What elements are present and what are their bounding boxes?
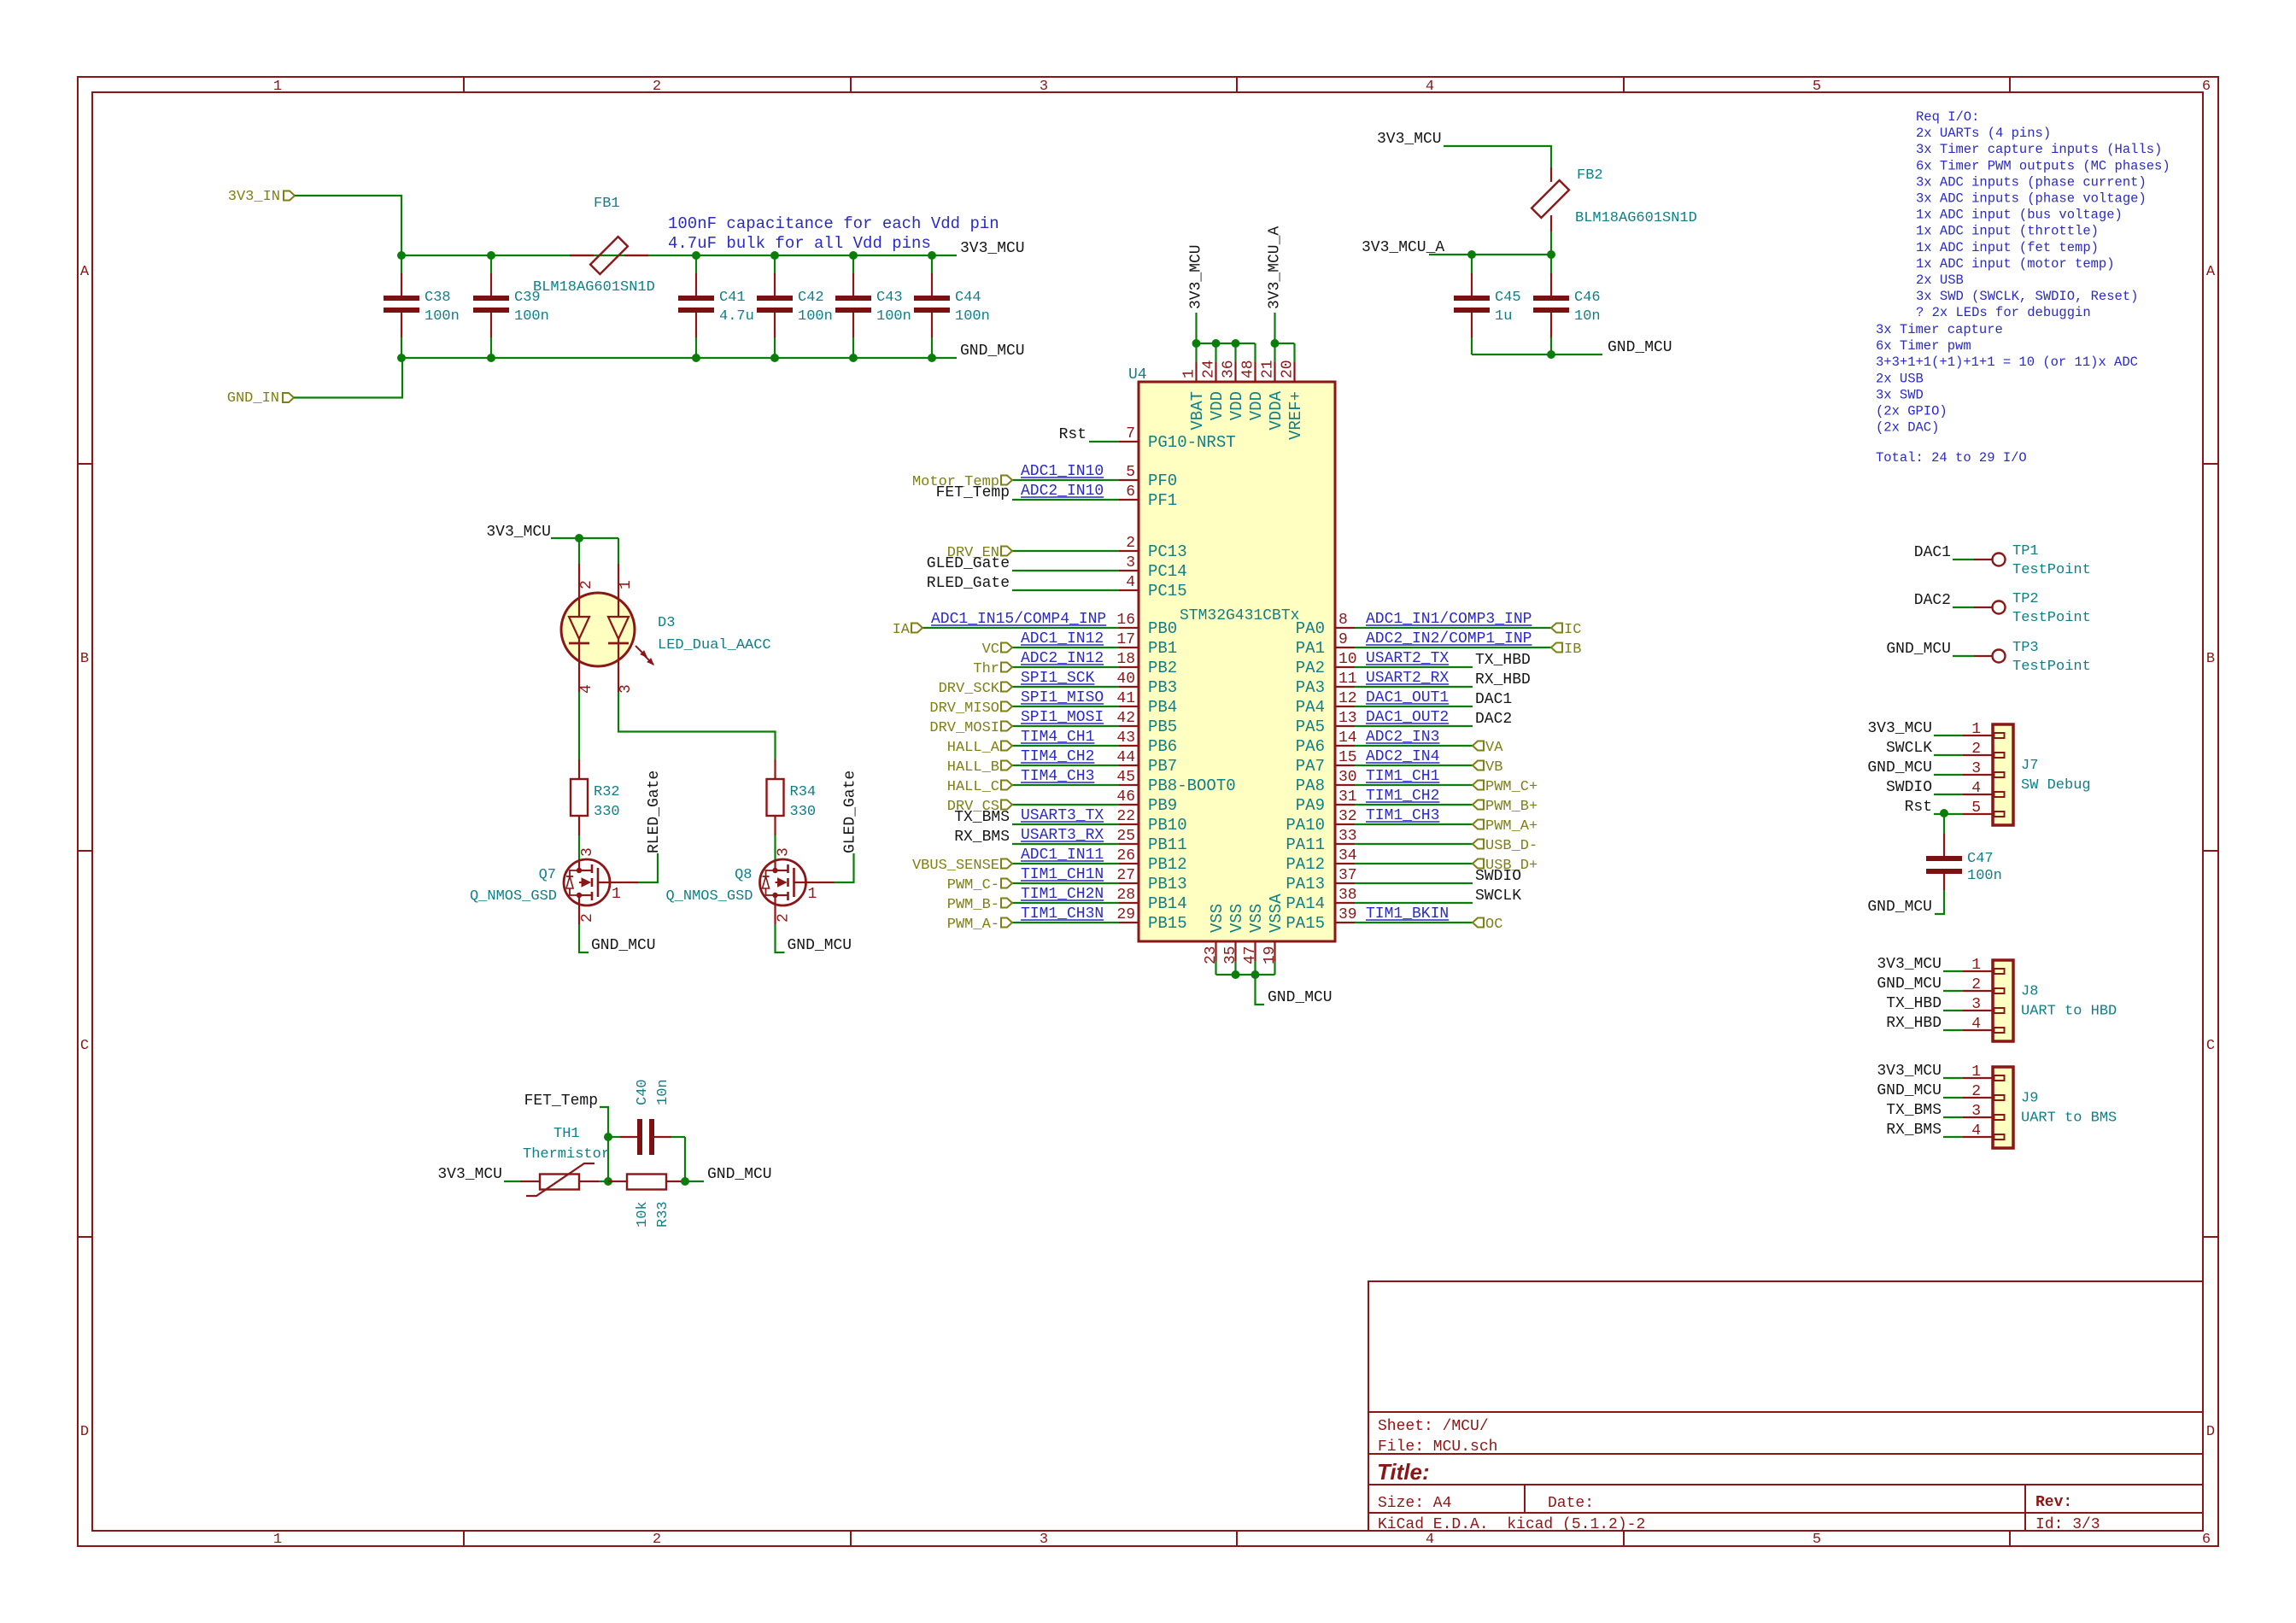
thermistor TH1 bbox=[520, 1126, 610, 1196]
svg-text:3x ADC inputs (phase current): 3x ADC inputs (phase current) bbox=[1916, 174, 2147, 190]
net label SPI1_MOSI bbox=[1021, 709, 1104, 726]
svg-text:RX_BMS: RX_BMS bbox=[954, 829, 1010, 846]
svg-text:PC15: PC15 bbox=[1148, 582, 1187, 601]
svg-text:HALL_B: HALL_B bbox=[947, 759, 999, 776]
svg-text:6x Timer pwm: 6x Timer pwm bbox=[1876, 338, 1971, 354]
net label ADC1_IN1/COMP3_INP bbox=[1366, 611, 1532, 628]
svg-text:6: 6 bbox=[2202, 79, 2211, 95]
svg-text:41: 41 bbox=[1116, 690, 1135, 707]
resistor R32 330 bbox=[571, 759, 620, 835]
resistor R34 330 bbox=[767, 759, 817, 835]
test point TP3 bbox=[1974, 640, 2091, 675]
wire RX_HBD to J8 pin 4 bbox=[1943, 1029, 1963, 1031]
svg-text:DRV_MOSI: DRV_MOSI bbox=[929, 720, 999, 736]
wire TH1 to R33 bbox=[599, 1181, 608, 1182]
svg-text:RLED_Gate: RLED_Gate bbox=[646, 770, 663, 853]
svg-text:BLM18AG601SN1D: BLM18AG601SN1D bbox=[1575, 210, 1697, 226]
capacitor C47 100n bbox=[1926, 813, 2002, 890]
transistor Q8 Q_NMOS_GSD bbox=[760, 859, 835, 924]
wire to GND_MCU label bbox=[685, 1181, 704, 1182]
pin 3 of J9 bbox=[1963, 1103, 2005, 1120]
svg-text:PA3: PA3 bbox=[1296, 678, 1325, 697]
wire 3V3_MCU drop to VDD group bbox=[1195, 313, 1197, 343]
wire GND_IN to rail bbox=[294, 358, 402, 398]
pin 1 of J8 bbox=[1963, 957, 2005, 974]
svg-text:PA10: PA10 bbox=[1286, 816, 1325, 835]
capacitor C39 bbox=[473, 255, 549, 358]
svg-text:2x USB: 2x USB bbox=[1916, 272, 1964, 288]
svg-text:GND_MCU: GND_MCU bbox=[1608, 339, 1672, 356]
svg-text:3: 3 bbox=[1126, 554, 1135, 571]
svg-text:GND_IN: GND_IN bbox=[227, 390, 279, 407]
wire to pin 28 bbox=[1012, 902, 1119, 904]
svg-text:PA14: PA14 bbox=[1286, 894, 1325, 913]
svg-text:Id: 3/3: Id: 3/3 bbox=[2035, 1516, 2100, 1533]
svg-text:3: 3 bbox=[1971, 996, 1981, 1013]
hierarchical label HALL_B bbox=[947, 759, 1012, 776]
svg-text:3: 3 bbox=[1971, 760, 1981, 777]
svg-text:36: 36 bbox=[1221, 360, 1238, 378]
pin 41 PB4 of U4 bbox=[1116, 690, 1177, 717]
svg-text:C47: C47 bbox=[1967, 851, 1994, 867]
pin 32 PA10 of U4 bbox=[1286, 808, 1356, 835]
svg-text:PA7: PA7 bbox=[1296, 757, 1325, 776]
svg-text:3x Timer capture: 3x Timer capture bbox=[1876, 322, 2003, 337]
svg-text:100nF capacitance for each Vdd: 100nF capacitance for each Vdd pin bbox=[668, 214, 999, 233]
svg-text:J7: J7 bbox=[2021, 758, 2038, 774]
svg-text:Req I/O:: Req I/O: bbox=[1916, 109, 1979, 125]
hierarchical label PWM_C+ bbox=[1473, 779, 1537, 795]
wire 3V3_MCU to LED pins bbox=[551, 538, 618, 564]
hierarchical label VBUS_SENSE bbox=[912, 858, 1012, 874]
frame row letters left bbox=[80, 264, 90, 1440]
wire from pin 34 bbox=[1355, 863, 1473, 864]
svg-text:GND_MCU: GND_MCU bbox=[1886, 641, 1951, 658]
svg-text:PWM_C+: PWM_C+ bbox=[1485, 779, 1537, 795]
svg-text:3: 3 bbox=[1040, 1532, 1048, 1548]
wire VDD group bbox=[1197, 343, 1256, 362]
junction C45 top bbox=[1467, 250, 1476, 259]
capacitor C44 bbox=[914, 255, 990, 358]
svg-text:(2x DAC): (2x DAC) bbox=[1876, 420, 1939, 436]
wire Q8 gate to GLED_Gate bbox=[835, 853, 854, 882]
hierarchical label USB_D- bbox=[1473, 838, 1537, 854]
pin 29 PB15 of U4 bbox=[1116, 906, 1186, 933]
wire VSS group bbox=[1216, 961, 1275, 975]
svg-text:SW Debug: SW Debug bbox=[2021, 777, 2091, 794]
svg-text:PC13: PC13 bbox=[1148, 542, 1187, 561]
pin 21 VDDA of U4 bbox=[1260, 360, 1286, 430]
junction TH1 R33 node bbox=[604, 1177, 612, 1186]
pin 33 PA11 of U4 bbox=[1286, 828, 1356, 854]
svg-text:PWM_A+: PWM_A+ bbox=[1485, 818, 1537, 835]
svg-text:3x SWD: 3x SWD bbox=[1876, 387, 1924, 402]
svg-text:PB7: PB7 bbox=[1148, 757, 1177, 776]
svg-text:PA9: PA9 bbox=[1296, 796, 1325, 815]
net label TIM4_CH1 bbox=[1021, 729, 1094, 746]
svg-text:Q_NMOS_GSD: Q_NMOS_GSD bbox=[665, 888, 753, 905]
svg-text:GND_MCU: GND_MCU bbox=[960, 343, 1025, 360]
svg-text:C: C bbox=[80, 1038, 89, 1054]
svg-text:1: 1 bbox=[1971, 957, 1981, 974]
svg-text:1: 1 bbox=[808, 886, 817, 903]
svg-text:PB3: PB3 bbox=[1148, 678, 1177, 697]
svg-text:DAC1: DAC1 bbox=[1914, 544, 1951, 561]
svg-text:33: 33 bbox=[1338, 828, 1357, 845]
hierarchical label OC bbox=[1473, 917, 1502, 933]
pin 4 PC15 of U4 bbox=[1119, 574, 1187, 601]
svg-text:(2x GPIO): (2x GPIO) bbox=[1876, 404, 1947, 419]
svg-text:PB4: PB4 bbox=[1148, 698, 1177, 717]
svg-text:17: 17 bbox=[1116, 631, 1135, 648]
wire RX_BMS to J9 pin 4 bbox=[1943, 1136, 1963, 1138]
wire to pin 17 bbox=[1012, 647, 1119, 648]
svg-text:4: 4 bbox=[1426, 79, 1434, 95]
text note capacitance comment bbox=[668, 214, 999, 253]
svg-text:6: 6 bbox=[1126, 483, 1135, 501]
junction C46 bottom bbox=[1547, 350, 1555, 359]
net label ADC1_IN11 bbox=[1021, 847, 1104, 864]
pin 37 PA13 of U4 bbox=[1286, 867, 1356, 894]
wire from pin 32 bbox=[1355, 823, 1473, 825]
wire from pin 30 bbox=[1355, 784, 1473, 786]
net label TIM1_CH1N bbox=[1021, 866, 1104, 883]
wire to pin 42 bbox=[1012, 725, 1119, 727]
pin 47 VSS of U4 bbox=[1242, 904, 1266, 964]
hierarchical label DRV_MISO bbox=[929, 700, 1012, 717]
net label ADC1_IN10 bbox=[1021, 463, 1104, 480]
svg-text:RLED_Gate: RLED_Gate bbox=[927, 575, 1010, 592]
svg-text:PB12: PB12 bbox=[1148, 855, 1187, 874]
svg-text:VC: VC bbox=[982, 642, 999, 658]
svg-text:2: 2 bbox=[653, 1532, 661, 1548]
wire to pin 18 bbox=[1012, 666, 1119, 668]
hierarchical label VA bbox=[1473, 740, 1503, 756]
svg-text:SWCLK: SWCLK bbox=[1886, 740, 1932, 757]
svg-text:2: 2 bbox=[1971, 976, 1981, 993]
wire 3V3_MCU to J8 pin 1 bbox=[1943, 970, 1963, 972]
wire Q7 source to ground bbox=[579, 924, 589, 952]
svg-text:TP3: TP3 bbox=[2012, 640, 2039, 656]
hierarchical label DRV_EN bbox=[947, 545, 1012, 561]
net label TIM4_CH3 bbox=[1021, 768, 1094, 785]
svg-text:10n: 10n bbox=[1574, 308, 1601, 325]
svg-text:A: A bbox=[80, 264, 90, 280]
wire Q7 gate to RLED_Gate bbox=[638, 853, 658, 882]
svg-text:1u: 1u bbox=[1495, 308, 1512, 325]
pin 1 of J7 bbox=[1963, 721, 2005, 738]
wire 3V3_MCU to J7 pin 1 bbox=[1934, 735, 1963, 736]
svg-text:GND_MCU: GND_MCU bbox=[788, 937, 852, 954]
svg-text:C43: C43 bbox=[876, 290, 903, 306]
svg-text:10k: 10k bbox=[635, 1201, 651, 1228]
pin 17 PB1 of U4 bbox=[1116, 631, 1177, 658]
svg-text:3: 3 bbox=[1971, 1103, 1981, 1120]
svg-text:3V3_MCU_A: 3V3_MCU_A bbox=[1267, 226, 1284, 309]
pin 31 PA9 of U4 bbox=[1296, 788, 1357, 815]
wire 3V3_MCU_A rail bbox=[1429, 254, 1551, 255]
wire SWCLK to J7 pin 2 bbox=[1934, 754, 1963, 756]
svg-text:100n: 100n bbox=[876, 308, 911, 325]
svg-text:330: 330 bbox=[594, 804, 620, 820]
svg-text:PB14: PB14 bbox=[1148, 894, 1187, 913]
svg-text:9: 9 bbox=[1338, 631, 1348, 648]
svg-text:C44: C44 bbox=[955, 290, 981, 306]
svg-text:4.7u: 4.7u bbox=[719, 308, 754, 325]
net label USART2_TX bbox=[1366, 650, 1449, 667]
wire TX_HBD to J8 pin 3 bbox=[1943, 1010, 1963, 1011]
net label SPI1_SCK bbox=[1021, 670, 1095, 687]
pin 13 PA5 of U4 bbox=[1296, 710, 1357, 736]
junction at C41 bottom bbox=[692, 354, 700, 362]
svg-text:C45: C45 bbox=[1495, 290, 1521, 306]
hierarchical label IA bbox=[893, 622, 922, 638]
wire FB2 to 3V3_MCU_A rail bbox=[1550, 231, 1552, 255]
svg-text:C46: C46 bbox=[1574, 290, 1601, 306]
wire GND_MCU to J7 pin 3 bbox=[1934, 774, 1963, 776]
svg-text:Rev:: Rev: bbox=[2035, 1494, 2072, 1511]
svg-text:PA4: PA4 bbox=[1296, 698, 1325, 717]
svg-text:14: 14 bbox=[1338, 729, 1357, 747]
svg-text:PWM_B+: PWM_B+ bbox=[1485, 799, 1537, 815]
svg-text:PA13: PA13 bbox=[1286, 875, 1325, 894]
wire from pin 39 bbox=[1355, 922, 1473, 923]
junction VDDA bbox=[1271, 339, 1280, 348]
svg-text:2: 2 bbox=[578, 580, 595, 589]
svg-text:VSSA: VSSA bbox=[1267, 894, 1286, 933]
junction at C39 bottom bbox=[487, 354, 495, 362]
svg-text:IC: IC bbox=[1564, 622, 1581, 638]
resistor R33 10k bbox=[608, 1175, 685, 1228]
svg-text:Q_NMOS_GSD: Q_NMOS_GSD bbox=[470, 888, 557, 905]
svg-text:C: C bbox=[2206, 1038, 2215, 1054]
svg-text:RX_BMS: RX_BMS bbox=[1886, 1122, 1942, 1139]
wire from pin 37 bbox=[1355, 882, 1473, 884]
svg-text:40: 40 bbox=[1116, 671, 1135, 688]
svg-text:3x SWD (SWCLK, SWDIO, Reset): 3x SWD (SWCLK, SWDIO, Reset) bbox=[1916, 289, 2138, 304]
hierarchical label VB bbox=[1473, 759, 1502, 776]
svg-text:3+3+1+1(+1)+1+1 = 10 (or 11)x: 3+3+1+1(+1)+1+1 = 10 (or 11)x ADC bbox=[1876, 354, 2138, 370]
hierarchical label DRV_SCK bbox=[939, 681, 1012, 697]
junction Rst C47 bbox=[1940, 809, 1948, 817]
net label TIM1_BKIN bbox=[1366, 905, 1449, 923]
svg-text:38: 38 bbox=[1338, 887, 1357, 904]
svg-text:30: 30 bbox=[1338, 769, 1357, 786]
transistor Q7 Q_NMOS_GSD bbox=[564, 859, 638, 924]
capacitor C46 10n bbox=[1533, 255, 1601, 354]
net label ADC1_IN15/COMP4_INP bbox=[931, 611, 1106, 628]
svg-text:FB2: FB2 bbox=[1577, 167, 1603, 184]
svg-text:RX_HBD: RX_HBD bbox=[1886, 1015, 1942, 1032]
hierarchical label 3V3_IN bbox=[228, 189, 295, 205]
svg-text:PC14: PC14 bbox=[1148, 562, 1187, 581]
svg-text:VDD: VDD bbox=[1227, 391, 1246, 420]
svg-text:2x UARTs (4 pins): 2x UARTs (4 pins) bbox=[1916, 126, 2051, 141]
wire from pin 15 bbox=[1355, 765, 1473, 766]
pin 28 PB14 of U4 bbox=[1116, 887, 1186, 913]
pin 6 PF1 of U4 bbox=[1119, 483, 1177, 510]
svg-text:VBAT: VBAT bbox=[1188, 391, 1207, 431]
wire to pin 22 bbox=[1012, 823, 1119, 825]
pin 4 of J9 bbox=[1963, 1122, 2005, 1140]
pin 14 PA6 of U4 bbox=[1296, 729, 1357, 756]
junction VSS 47 bbox=[1251, 970, 1260, 979]
net label TIM1_CH3N bbox=[1021, 905, 1104, 923]
svg-text:DAC1: DAC1 bbox=[1475, 691, 1512, 708]
junction at C38 bottom bbox=[397, 354, 406, 362]
pin 48 VDD of U4 bbox=[1240, 360, 1267, 420]
pin 12 PA4 of U4 bbox=[1296, 690, 1357, 717]
svg-text:44: 44 bbox=[1116, 749, 1135, 766]
svg-text:GND_MCU: GND_MCU bbox=[591, 937, 656, 954]
svg-text:2: 2 bbox=[1126, 535, 1135, 552]
svg-text:GND_MCU: GND_MCU bbox=[707, 1166, 772, 1183]
LED D3 dual LED_Dual_AACC bbox=[561, 564, 653, 692]
wire from pin 8 bbox=[1355, 627, 1551, 629]
wire 3V3_MCU to J9 pin 1 bbox=[1943, 1077, 1963, 1079]
pin 23 VSS of U4 bbox=[1203, 904, 1227, 964]
wire 3V3_MCU to TH1 bbox=[504, 1181, 520, 1182]
pin 36 VDD of U4 bbox=[1221, 360, 1247, 420]
svg-text:GND_MCU: GND_MCU bbox=[1877, 1082, 1942, 1099]
junction at C39 top bbox=[487, 251, 495, 260]
pin 8 PA0 of U4 bbox=[1296, 612, 1355, 638]
wire Q8 source to ground bbox=[776, 924, 785, 952]
svg-text:VDDA: VDDA bbox=[1267, 390, 1286, 430]
svg-text:3V3_MCU: 3V3_MCU bbox=[1188, 244, 1205, 309]
pin 1 of J9 bbox=[1963, 1063, 2005, 1081]
svg-text:Q8: Q8 bbox=[735, 867, 752, 883]
svg-text:PA2: PA2 bbox=[1296, 659, 1325, 677]
frame column numbers bottom bbox=[273, 1532, 2211, 1548]
svg-text:24: 24 bbox=[1201, 360, 1218, 378]
svg-text:11: 11 bbox=[1338, 671, 1357, 688]
svg-text:PWM_C-: PWM_C- bbox=[947, 877, 999, 894]
svg-text:FB1: FB1 bbox=[594, 196, 620, 212]
svg-text:PA8: PA8 bbox=[1296, 776, 1325, 795]
svg-text:23: 23 bbox=[1203, 946, 1220, 964]
svg-text:GND_MCU: GND_MCU bbox=[1877, 976, 1942, 993]
svg-text:Thermistor: Thermistor bbox=[523, 1146, 610, 1163]
svg-text:5: 5 bbox=[1971, 800, 1981, 817]
pin 19 VSSA of U4 bbox=[1262, 894, 1286, 964]
svg-text:4: 4 bbox=[578, 684, 595, 694]
hierarchical label HALL_A bbox=[947, 740, 1012, 756]
svg-text:31: 31 bbox=[1338, 788, 1357, 806]
svg-text:42: 42 bbox=[1116, 710, 1135, 727]
svg-text:5: 5 bbox=[1126, 464, 1135, 481]
pin 5 of J7 bbox=[1963, 800, 2005, 817]
wire to pin 26 bbox=[1012, 863, 1119, 864]
svg-text:DRV_MISO: DRV_MISO bbox=[929, 700, 999, 717]
svg-text:HALL_A: HALL_A bbox=[947, 740, 1000, 756]
svg-text:3V3_MCU: 3V3_MCU bbox=[486, 524, 551, 541]
wire GND_MCU to TP3 bbox=[1953, 655, 1974, 657]
svg-text:TP2: TP2 bbox=[2012, 591, 2039, 607]
pin 3 PC14 of U4 bbox=[1119, 554, 1187, 581]
wire R34 to transistor bbox=[774, 835, 776, 859]
pin 18 PB2 of U4 bbox=[1116, 651, 1177, 677]
wire FET_Temp down bbox=[600, 1107, 608, 1181]
svg-text:5: 5 bbox=[1813, 1532, 1821, 1548]
svg-text:1: 1 bbox=[618, 580, 635, 589]
pin 5 PF0 of U4 bbox=[1119, 464, 1177, 490]
pin 39 PA15 of U4 bbox=[1286, 906, 1356, 933]
hierarchical label IC bbox=[1551, 622, 1581, 638]
svg-text:330: 330 bbox=[790, 804, 817, 820]
wire to pin 29 bbox=[1012, 922, 1119, 923]
wire from pin 10 bbox=[1355, 666, 1473, 668]
wire VSS to ground label bbox=[1256, 975, 1265, 1005]
svg-text:FET_Temp: FET_Temp bbox=[936, 484, 1010, 501]
ferrite bead FB2 bbox=[1532, 167, 1697, 231]
wire to pin 43 bbox=[1012, 745, 1119, 747]
wire to pin 27 bbox=[1012, 882, 1119, 884]
hierarchical label HALL_C bbox=[947, 779, 1012, 795]
svg-text:RX_HBD: RX_HBD bbox=[1475, 671, 1531, 688]
svg-text:A: A bbox=[2206, 264, 2216, 280]
net label DAC1_OUT1 bbox=[1366, 689, 1449, 706]
junction at C38 top bbox=[397, 251, 406, 260]
svg-text:Rst: Rst bbox=[1059, 426, 1086, 443]
svg-text:SWDIO: SWDIO bbox=[1475, 868, 1521, 885]
hierarchical label Motor_Temp bbox=[912, 474, 1012, 490]
svg-text:13: 13 bbox=[1338, 710, 1357, 727]
pin 2 of J8 bbox=[1963, 976, 2005, 993]
svg-text:7: 7 bbox=[1126, 425, 1135, 442]
wire from pin 9 bbox=[1355, 647, 1551, 648]
svg-text:43: 43 bbox=[1116, 729, 1135, 747]
svg-text:PB10: PB10 bbox=[1148, 816, 1187, 835]
wire to pin 16 bbox=[922, 627, 1119, 629]
svg-text:SWCLK: SWCLK bbox=[1475, 888, 1521, 905]
wire C47 to ground bbox=[1935, 890, 1944, 914]
svg-text:27: 27 bbox=[1116, 867, 1135, 884]
pin 3 of J7 bbox=[1963, 760, 2005, 777]
svg-text:Size: A4: Size: A4 bbox=[1378, 1495, 1451, 1512]
svg-text:J9: J9 bbox=[2021, 1091, 2038, 1107]
wire DAC2 to TP2 bbox=[1953, 606, 1974, 608]
svg-text:1x ADC input (motor temp): 1x ADC input (motor temp) bbox=[1916, 256, 2115, 272]
pin 24 VDD of U4 bbox=[1201, 360, 1227, 420]
pin 42 PB5 of U4 bbox=[1116, 710, 1177, 736]
svg-text:Total: 24 to 29 I/O: Total: 24 to 29 I/O bbox=[1876, 450, 2027, 466]
wire SWDIO to J7 pin 4 bbox=[1934, 794, 1963, 795]
svg-text:FET_Temp: FET_Temp bbox=[524, 1093, 598, 1110]
wire to pin 3 bbox=[1012, 570, 1119, 571]
svg-text:BLM18AG601SN1D: BLM18AG601SN1D bbox=[533, 279, 655, 296]
pin 27 PB13 of U4 bbox=[1116, 867, 1186, 894]
pin 35 VSS of U4 bbox=[1222, 904, 1246, 964]
svg-text:PWM_B-: PWM_B- bbox=[947, 897, 999, 913]
junction VDD 36 bbox=[1232, 339, 1240, 348]
svg-text:1x ADC input (bus voltage): 1x ADC input (bus voltage) bbox=[1916, 208, 2123, 223]
capacitor C43 bbox=[835, 255, 911, 358]
net label TIM1_CH2 bbox=[1366, 788, 1439, 805]
svg-text:D: D bbox=[2206, 1424, 2215, 1440]
svg-text:TX_HBD: TX_HBD bbox=[1475, 652, 1531, 669]
svg-text:UART to HBD: UART to HBD bbox=[2021, 1004, 2117, 1020]
pin 10 PA2 of U4 bbox=[1296, 651, 1357, 677]
hierarchical label PWM_A+ bbox=[1473, 818, 1537, 835]
pin 9 PA1 of U4 bbox=[1296, 631, 1355, 658]
svg-text:4: 4 bbox=[1971, 1016, 1981, 1033]
svg-text:1: 1 bbox=[1971, 1063, 1981, 1081]
wire TX_BMS to J9 pin 3 bbox=[1943, 1116, 1963, 1118]
svg-text:C40: C40 bbox=[635, 1079, 651, 1105]
pin 1 VBAT of U4 bbox=[1181, 362, 1208, 431]
test point TP2 bbox=[1974, 591, 2091, 626]
